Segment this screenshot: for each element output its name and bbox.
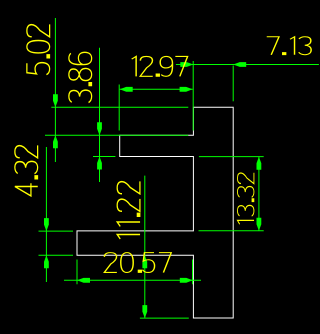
- extension line bar bottom left y=255.2 (dim 4.32): [39, 254, 74, 256]
- dimension line 12.97 (horizontal y=89.3): [120, 88, 193, 90]
- extension line slab bottom y=318.1 (dim 11.22): [140, 317, 189, 319]
- dimension line 13.32 (vertical x=258.9): [258, 157, 260, 231]
- arrowhead 11.22 top (points up at y=255.3): [142, 255, 147, 268]
- arrowhead 13.32 top (points up at y=156.7): [257, 157, 262, 170]
- dimension line 3.86 (vertical x=99.5): [99, 48, 101, 182]
- extension line flange bottom left y=156.5 (dim 3.86): [93, 156, 115, 158]
- dimension text 12.97: [132, 56, 188, 76]
- arrowhead 7.13 right (points left at x=233.2): [233, 62, 246, 67]
- dimension text 20.57: [104, 253, 171, 273]
- extension line x=77 (dim 20.57): [76, 260, 78, 285]
- arrowhead 5.02 bottom (points up at y=135.3): [53, 135, 58, 148]
- arrowhead 20.57 right (points right at x=192.8): [180, 278, 193, 283]
- dimension line 4.32 (vertical x=46.4): [45, 147, 47, 282]
- arrowhead 4.32 top (points down at y=231.1): [44, 218, 49, 231]
- dimension line 7.13 (horizontal y=64.5): [176, 64, 319, 66]
- extension line top edge y=107 (dim 5.02): [51, 106, 188, 108]
- dimension line 5.02 (vertical x=55.4): [54, 18, 56, 162]
- part outline: stepped slab profile: [77, 107, 233, 318]
- extension line flange top y=135 (dims 5.02/3.86): [45, 134, 188, 136]
- extension line x=119.2 (dim 12.97): [118, 85, 120, 131]
- arrowhead 20.57 left (points left at x=77): [77, 278, 90, 283]
- arrowhead 7.13 left (points right at x=193.3): [180, 62, 193, 67]
- extension line x=193.2 (dims 12.97/7.13): [192, 61, 194, 131]
- arrowhead 13.32 bottom (points down at y=230.8): [257, 218, 262, 231]
- dimension text 5.02 (rotated): [27, 24, 50, 74]
- dimension text 3.86 (rotated): [69, 52, 92, 102]
- dimension text 4.32 (rotated): [15, 145, 38, 196]
- extension line bar top left y=231.1 (dim 4.32): [39, 230, 74, 232]
- dimension line 20.57 (horizontal y=280.3): [64, 279, 201, 281]
- extension line x=233.2 (dim 7.13): [232, 66, 234, 102]
- arrowhead 4.32 bottom (points up at y=255.2): [44, 255, 49, 268]
- arrowhead 3.86 bottom (points up at y=156.5): [97, 157, 102, 170]
- arrowhead 3.86 top (points down at y=135.3): [97, 122, 102, 135]
- extension line x=192.5 (dim 20.57): [192, 260, 194, 285]
- arrowhead 12.97 left (points left at x=119.7): [120, 87, 133, 92]
- arrowhead 12.97 right (points right at x=192.6): [180, 87, 193, 92]
- dimension text 7.13: [267, 37, 311, 55]
- arrowhead 5.02 top (points down at y=107.2): [53, 94, 58, 107]
- extension line bar top right y=230.8 (dim 13.32): [199, 230, 264, 232]
- dimension text 13.32 (rotated): [237, 173, 254, 225]
- dimension line 11.22 (vertical x=144.8): [144, 176, 146, 319]
- extension line flange bottom right y=156.6 (dim 13.32): [199, 156, 264, 158]
- dimension text 11.22 (rotated): [117, 181, 140, 239]
- arrowhead 11.22 bottom (points down at y=318.1): [142, 305, 147, 318]
